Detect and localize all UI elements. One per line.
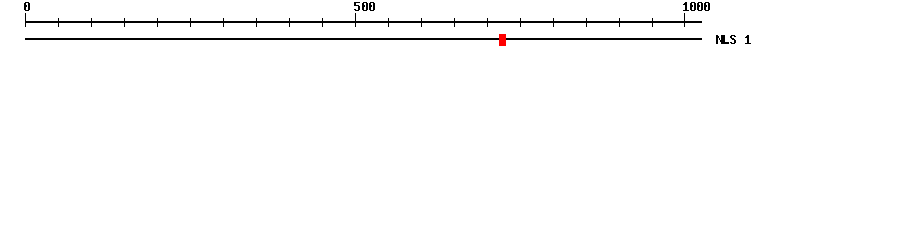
minor tick 100 [91, 18, 92, 27]
sequence line [25, 38, 702, 40]
minor tick 950 [652, 18, 653, 27]
major tick 1000 [684, 13, 685, 27]
minor tick 150 [124, 18, 125, 27]
NLS motif red box [499, 34, 506, 46]
minor tick 400 [289, 18, 290, 27]
ruler label 0 [24, 2, 30, 11]
minor tick 50 [58, 18, 59, 27]
minor tick 600 [421, 18, 422, 27]
minor tick 350 [256, 18, 257, 27]
minor tick 550 [388, 18, 389, 27]
minor tick 850 [586, 18, 587, 27]
minor tick 900 [619, 18, 620, 27]
ruler label 500 [354, 2, 375, 11]
minor tick 300 [223, 18, 224, 27]
major tick 500 [355, 13, 356, 27]
minor tick 250 [190, 18, 191, 27]
major tick 0 [25, 13, 26, 27]
minor tick 700 [487, 18, 488, 27]
minor tick 450 [322, 18, 323, 27]
minor tick 650 [454, 18, 455, 27]
feature label NLS 1 [716, 35, 751, 44]
minor tick 750 [520, 18, 521, 27]
minor tick 200 [157, 18, 158, 27]
minor tick 800 [553, 18, 554, 27]
ruler axis line [25, 21, 702, 23]
ruler label 1000 [683, 2, 710, 11]
